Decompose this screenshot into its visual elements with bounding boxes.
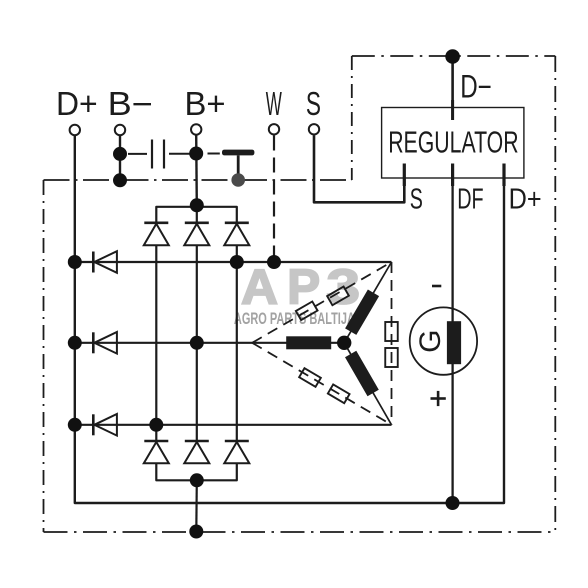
regulator pin DF stub <box>451 164 454 187</box>
stator winding bar (upper-right arm) <box>345 290 379 335</box>
svg-text:B−: B− <box>108 85 153 122</box>
diode D9 (negative trio) <box>224 441 249 463</box>
alternator housing dash-dot outline: top <box>352 55 556 57</box>
diode D2 (positive trio) <box>184 223 209 246</box>
junction dot row3 column1 <box>149 418 163 432</box>
phase column 3 wire <box>236 245 238 441</box>
regulator pin S stub <box>403 164 406 187</box>
terminal B+ circle <box>191 124 201 134</box>
phase column 1 wire <box>155 245 157 441</box>
delta winding dashed side (right) <box>391 262 393 425</box>
capacitor C1 between B- and B+ <box>128 140 190 169</box>
regulator pin D- stub <box>451 100 454 120</box>
junction dot row1 left bus <box>68 255 82 269</box>
junction dot row2 column2 <box>190 336 204 350</box>
junction dot B+ capacitor <box>189 147 203 161</box>
wire S terminal to regulator S pin <box>314 136 404 203</box>
junction dot star center <box>337 336 351 350</box>
label minus above rotor <box>432 285 441 288</box>
terminal D+ circle <box>70 125 80 135</box>
svg-text:W: W <box>266 85 283 122</box>
junction dot row2 left bus <box>68 336 82 350</box>
rotor generator circle G <box>410 307 477 374</box>
diode D5 (exciter, row 2) <box>93 332 117 354</box>
diode D3 (positive trio) <box>224 223 249 246</box>
negative trio common connector <box>156 463 237 480</box>
svg-text:D+: D+ <box>56 85 98 122</box>
alternator housing dash-dot outline: bottom <box>44 531 556 533</box>
alternator housing dash-dot outline: right vertical <box>554 56 556 532</box>
diode D8 (negative trio) <box>184 441 209 463</box>
suppression capacitor C2 near W <box>208 150 255 175</box>
junction dot row1 column3 <box>230 255 244 269</box>
svg-text:DF: DF <box>457 183 483 215</box>
junction dot row3 left bus <box>68 418 82 432</box>
delta winding rect (right side, upper) <box>385 322 398 341</box>
delta winding rect (bottom side, upper) <box>299 368 321 387</box>
watermark APB logo <box>241 261 360 315</box>
wire negative common to housing <box>195 480 198 531</box>
junction dot field to D+ bus <box>446 496 460 510</box>
rotor field bar <box>447 321 461 364</box>
exciter diode bus from B+ <box>156 207 237 223</box>
terminal B- circle <box>115 125 125 135</box>
stator star winding: thin arm lines <box>344 262 391 343</box>
phase column 2 wire <box>196 245 198 441</box>
diode D6 (exciter, row 3) <box>93 414 117 436</box>
alternator housing dash-dot outline: left vertical <box>43 180 45 532</box>
alternator housing dash-dot outline: regulator-left vertical <box>351 56 353 180</box>
delta winding rect (bottom side, lower) <box>328 384 350 403</box>
wire W terminal down to phase row 1 (dashed) <box>273 136 275 263</box>
svg-text:REGULATOR: REGULATOR <box>388 125 518 160</box>
diode D7 (negative trio) <box>144 441 169 463</box>
wire D- regulator pin up to housing <box>451 57 454 121</box>
junction dot B+ diode bus <box>190 198 204 212</box>
stator winding bar (lower-right arm) <box>345 351 379 396</box>
delta winding rect (top side, upper) <box>327 287 349 306</box>
delta winding rect (right side, lower) <box>385 348 398 367</box>
junction dot row1 W <box>267 255 281 269</box>
svg-text:B+: B+ <box>185 85 226 122</box>
terminal S circle <box>309 124 319 134</box>
regulator box U1 <box>382 108 524 179</box>
diode D4 (exciter, row 1) <box>93 251 117 273</box>
wire B- terminal to housing <box>119 136 121 181</box>
label plus below rotor <box>431 391 446 406</box>
svg-text:S: S <box>410 183 423 215</box>
delta winding dashed side (top) <box>252 262 391 343</box>
junction dot housing bottom <box>189 525 203 539</box>
svg-text:D−: D− <box>460 69 492 105</box>
wire DF regulator pin down through rotor <box>451 178 453 503</box>
phase row 2 wire <box>75 342 344 344</box>
svg-text:AGRO PARTS BALTIJA: AGRO PARTS BALTIJA <box>234 310 355 328</box>
junction dot B- upper <box>113 147 127 161</box>
svg-text:S: S <box>306 85 321 122</box>
stator winding bar (left arm) <box>286 336 331 349</box>
junction dot D- on housing top <box>445 49 460 64</box>
diode D1 (positive trio) <box>144 223 169 246</box>
svg-text:D+: D+ <box>509 183 542 215</box>
delta winding rect (top side, lower) <box>296 301 318 320</box>
phase row 1 wire <box>75 261 392 263</box>
delta winding dashed side (bottom) <box>252 343 391 425</box>
alternator housing dash-dot outline: main horizontal <box>44 179 352 181</box>
junction dot negative common <box>190 473 204 487</box>
svg-text:G: G <box>414 330 447 353</box>
phase row 3 wire <box>75 424 392 426</box>
terminal W circle <box>269 124 279 134</box>
junction dot B- on housing <box>113 173 127 187</box>
exciter diode bus center stub <box>196 206 198 223</box>
junction dot C2 on housing <box>231 173 245 187</box>
wire B+ terminal down to diode bus <box>195 135 198 206</box>
wire D+ bus: terminal down, across bottom, up to regulator D+ pin <box>75 136 504 504</box>
regulator pin D+ stub <box>502 164 505 187</box>
